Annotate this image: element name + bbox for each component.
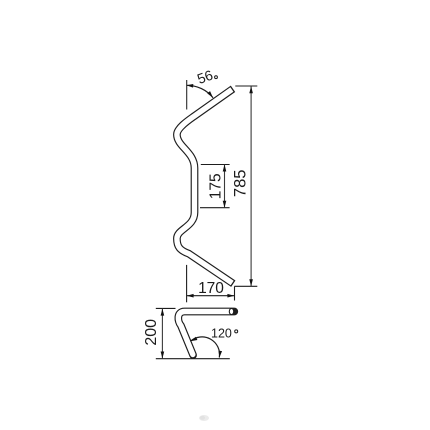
degree mark of 56 xyxy=(215,76,218,79)
svg-text:120: 120 xyxy=(211,327,232,341)
dim 785 extension line bottom (also 170 right extension horizontal) xyxy=(234,285,257,287)
120deg angle arc xyxy=(190,337,219,358)
dim 175 dimension line xyxy=(224,165,226,208)
dim 175 arrow up xyxy=(223,165,227,172)
56deg angle reference vertical line xyxy=(186,80,188,110)
handlebar tube front view (outer outline) xyxy=(177,89,233,284)
dim 170 arrow right xyxy=(227,294,234,298)
handlebar tube front view (inner white fill) xyxy=(177,90,232,284)
svg-text:175: 175 xyxy=(207,173,224,199)
dim 175 arrow down xyxy=(223,201,227,208)
faint smudge artifact xyxy=(199,415,209,421)
120deg arc arrowhead upper xyxy=(190,337,198,343)
dim 200 dimension line xyxy=(161,309,163,359)
dim 785 extension line top xyxy=(235,85,257,87)
dim 200 arrow down xyxy=(161,352,165,359)
dim 170 dimension line xyxy=(187,295,235,297)
dim 785 arrow down xyxy=(249,279,253,286)
dim 200 arrow up xyxy=(161,309,165,316)
dim 175 extension line top xyxy=(201,164,230,166)
svg-text:785: 785 xyxy=(232,170,250,198)
handlebar tube side view (outer outline) xyxy=(178,312,234,356)
56deg angle arc xyxy=(187,85,213,97)
svg-text:200: 200 xyxy=(143,319,160,346)
dim 785 dimension line xyxy=(250,86,252,286)
56deg arc arrowhead left xyxy=(186,84,193,88)
56deg arc arrowhead right xyxy=(207,91,214,99)
dim 175 extension line bottom xyxy=(200,207,230,209)
dim 200 extension line bottom xyxy=(156,358,230,360)
dim 200 extension line top xyxy=(156,307,176,309)
handlebar tube side view (inner white fill) xyxy=(178,312,231,355)
svg-text:170: 170 xyxy=(198,280,224,297)
120deg arc arrowhead lower xyxy=(218,351,223,358)
degree mark of 120 xyxy=(235,330,238,333)
dim 170 extension line right xyxy=(234,286,236,300)
handlebar tube side view right end cap ellipse xyxy=(229,308,233,314)
dim 170 arrow left xyxy=(187,294,194,298)
dim 785 arrow up xyxy=(249,86,253,93)
dim 170 extension line left xyxy=(186,265,188,302)
